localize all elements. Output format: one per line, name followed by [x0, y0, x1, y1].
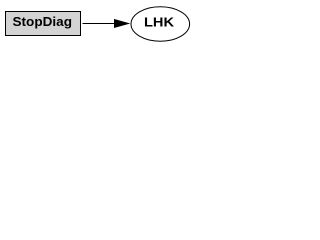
- svg-text:StopDiag: StopDiag: [13, 14, 73, 29]
- arrowhead: [115, 20, 129, 28]
- wire (edge StopDiag to LHK): [83, 23, 115, 25]
- node LHK (ellipse): [131, 7, 190, 41]
- node StopDiag (gray filled box): [6, 12, 81, 36]
- svg-text:LHK: LHK: [144, 15, 175, 30]
